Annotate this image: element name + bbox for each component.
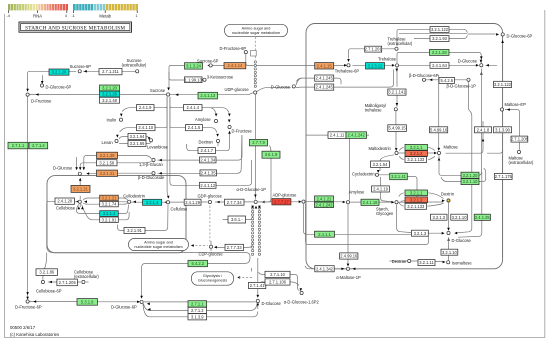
svg-text:D-Glucose: D-Glucose <box>458 58 478 63</box>
svg-text:2.4.1.12: 2.4.1.12 <box>200 183 216 188</box>
svg-text:Trehalose-6P: Trehalose-6P <box>335 68 360 73</box>
svg-text:3.2.1.21: 3.2.1.21 <box>100 171 116 176</box>
box 3.2.1.141 <box>388 89 406 95</box>
wire maltodextrin stack rows <box>399 147 435 159</box>
svg-text:3.2.1.4: 3.2.1.4 <box>146 200 159 205</box>
box 3.2.1.10 <box>451 214 468 220</box>
svg-text:3.2.1.26: 3.2.1.26 <box>102 92 118 97</box>
wire teal to glucose-6P <box>41 75 43 81</box>
box 3.2.1.58 <box>97 160 118 166</box>
compound Sucrose-6P(2) <box>209 64 212 67</box>
svg-text:2.7.1.175: 2.7.1.175 <box>495 174 513 179</box>
svg-text:2.7.1.1: 2.7.1.1 <box>191 301 204 306</box>
svg-text:5.4.99.16: 5.4.99.16 <box>430 127 448 132</box>
box 2.7.1.201 <box>365 46 382 52</box>
compound UDP-glucose <box>254 91 257 94</box>
box 2.4.1.4 <box>184 105 203 111</box>
compound Maltose-6'P <box>500 108 503 111</box>
box 3.2.1.86 <box>36 269 58 276</box>
svg-text:Maltose: Maltose <box>444 145 459 150</box>
svg-text:D-Glucose-6P: D-Glucose-6P <box>111 305 137 310</box>
svg-text:Maltose-6'P: Maltose-6'P <box>505 102 527 107</box>
box 2.4.1.19 <box>372 186 390 192</box>
box 3.2.1.26 <box>100 91 120 97</box>
wire trehalose row <box>248 64 393 66</box>
svg-text:3.2.1.64: 3.2.1.64 <box>130 134 146 139</box>
wire glucose-16P2 rows <box>259 272 300 291</box>
wire fructose-6P drop <box>243 54 249 66</box>
pathway box: amino sugar (bottom) <box>129 238 189 250</box>
box 5.3.1.9 <box>77 299 98 306</box>
svg-text:(extracellular): (extracellular) <box>509 160 534 165</box>
svg-text:3.1.3.9: 3.1.3.9 <box>191 314 204 319</box>
svg-text:3.2.1.41: 3.2.1.41 <box>391 174 407 179</box>
box 3.6.1.9 <box>262 151 280 158</box>
compound Maltodextrin <box>395 151 398 154</box>
svg-text:2.7.7.33: 2.7.7.33 <box>227 245 243 250</box>
svg-text:D-Glucose-6P: D-Glucose-6P <box>46 85 72 90</box>
compound Levanbiose <box>149 139 152 142</box>
svg-text:3.2.1.141: 3.2.1.141 <box>388 90 406 95</box>
svg-text:2.4.1.25: 2.4.1.25 <box>475 215 491 220</box>
box 2.4.1.9 <box>137 105 155 111</box>
box 3.2.1.26 <box>49 69 69 75</box>
svg-text:2.4.1.11: 2.4.1.11 <box>330 133 345 138</box>
wire cyclodextrin <box>379 155 417 202</box>
compound Cyclodextrin <box>375 173 378 176</box>
svg-text:2.4.1.245: 2.4.1.245 <box>316 76 334 81</box>
box 3.1.3.24 <box>185 63 203 69</box>
svg-text:β-D-Glucose-6P: β-D-Glucose-6P <box>409 73 439 78</box>
box 3.2.1.41 <box>390 173 408 180</box>
svg-text:Cellobiose: Cellobiose <box>56 206 76 211</box>
box 2.7.1.10 <box>265 271 290 277</box>
box 3.2.1.39 <box>97 152 118 158</box>
wire teal to D-fructose <box>28 71 49 96</box>
box 2.4.1.342 <box>315 266 334 272</box>
wire sucrose-6P row <box>69 70 136 72</box>
svg-text:3.6.1.9: 3.6.1.9 <box>265 152 278 157</box>
svg-text:2.4.1.13: 2.4.1.13 <box>200 93 216 98</box>
svg-text:Amino sugar and: Amino sugar and <box>144 240 173 244</box>
svg-text:5.4.2.2: 5.4.2.2 <box>192 261 205 266</box>
box 1.1.99.13 <box>185 77 203 83</box>
svg-text:Maltodextrin: Maltodextrin <box>369 146 392 151</box>
box 3.2.1.3 <box>431 214 448 220</box>
compound D-Glucose-6P <box>40 84 43 87</box>
svg-text:Amino sugar and: Amino sugar and <box>242 26 271 30</box>
compound CDP-glucose <box>209 245 212 248</box>
box 3.2.1.48 <box>100 97 120 103</box>
svg-text:3.2.1.39: 3.2.1.39 <box>100 153 116 158</box>
wire adp column <box>304 204 429 245</box>
svg-text:3.2.1.20: 3.2.1.20 <box>102 86 118 91</box>
compound 1,3-b-Glucan <box>152 158 155 161</box>
svg-text:2.4.1.10: 2.4.1.10 <box>138 125 154 130</box>
compound Isomaltose <box>447 261 450 264</box>
svg-text:Dextran: Dextran <box>199 139 214 144</box>
compound D-Glucose BR <box>447 231 450 234</box>
compound b-D-Glucose-6P <box>422 78 425 81</box>
svg-text:5.4.99.15: 5.4.99.15 <box>389 126 407 131</box>
box 3.2.1.74 <box>100 201 119 206</box>
box 2.4.1.5 <box>186 125 203 131</box>
svg-text:2.4.1.18: 2.4.1.18 <box>363 200 379 205</box>
box 2.7.1.208 <box>511 136 528 142</box>
wire 2.4.1.245 upper <box>297 78 303 81</box>
wire maltodextrin row <box>399 152 436 154</box>
svg-text:Glycolysis /: Glycolysis / <box>203 274 223 278</box>
wire sucrose main row <box>29 94 166 96</box>
svg-text:β-D-Glucoside: β-D-Glucoside <box>138 175 165 180</box>
wire gdp cdp column <box>210 241 212 251</box>
wire dextrin stack rows <box>399 193 444 206</box>
svg-text:3.2.1.10: 3.2.1.10 <box>463 179 479 184</box>
small connector box on dashed line <box>251 50 257 56</box>
box 2.7.1.41 <box>249 282 266 288</box>
box 3.2.1.93 <box>430 36 449 42</box>
wire trehalose up rows <box>397 29 496 63</box>
svg-text:2.4.1.34: 2.4.1.34 <box>200 158 216 163</box>
pathway box: amino sugar (top) <box>225 24 288 36</box>
box 2.4.1.1 <box>315 231 335 237</box>
svg-text:2.4.1.19: 2.4.1.19 <box>373 187 389 192</box>
compound GDP-glucose <box>208 200 211 203</box>
wire glucosidase rows to glucose <box>77 155 152 173</box>
wire cdp dashed join <box>209 205 211 207</box>
svg-text:D-Glucose: D-Glucose <box>53 166 73 171</box>
svg-text:D-Fructose-6P: D-Fructose-6P <box>220 46 247 51</box>
compound Dextrin <box>447 199 450 202</box>
box 2.7.1.175 <box>495 173 513 179</box>
wire maltose1p row <box>305 266 359 269</box>
svg-text:2.7.7.27: 2.7.7.27 <box>274 199 290 204</box>
compound Dextran left <box>216 139 219 142</box>
svg-text:3.2.1.91: 3.2.1.91 <box>127 228 143 233</box>
svg-text:3.2.1.10: 3.2.1.10 <box>442 250 458 255</box>
svg-text:2.7.1.1: 2.7.1.1 <box>12 143 25 148</box>
svg-text:2.7.1.106: 2.7.1.106 <box>269 280 287 285</box>
box 3.2.1.4 <box>143 199 162 205</box>
colorbar Metab <box>73 4 93 10</box>
svg-text:2.7.7.34: 2.7.7.34 <box>227 200 243 205</box>
wire chain bottom to 2.7.1.41 <box>257 258 259 309</box>
svg-text:nucleotide sugar metabolism: nucleotide sugar metabolism <box>232 31 280 35</box>
colorbar RNA <box>8 4 68 10</box>
svg-text:2.4.1.245: 2.4.1.245 <box>316 85 334 90</box>
svg-text:Cellulose: Cellulose <box>171 206 189 211</box>
svg-text:3.2.1.21: 3.2.1.21 <box>73 187 89 192</box>
wire inulin rows <box>120 97 168 132</box>
wire 361 row <box>223 212 253 220</box>
svg-text:(extracellular): (extracellular) <box>122 63 147 68</box>
box 2.7.7.33 <box>225 244 244 250</box>
box 2.4.1.21 <box>315 196 334 202</box>
svg-text:nucleotide sugar metabolism: nucleotide sugar metabolism <box>134 245 182 249</box>
svg-text:trehalose: trehalose <box>365 108 383 113</box>
box 3.2.1.3 <box>412 230 429 236</box>
wire maltose down BJ <box>439 69 486 238</box>
box 2.7.7.9 <box>250 139 268 146</box>
pathway box: glycolysis <box>192 272 234 285</box>
wire trehalose extracell <box>349 49 395 59</box>
svg-text:α-D-Glucose-1P: α-D-Glucose-1P <box>237 187 267 192</box>
box 3.2.1.133 <box>405 157 427 163</box>
wire cellobiose column <box>77 180 95 220</box>
wire maltoligosyl down <box>395 112 397 150</box>
compound Sucrose (extracellular) <box>136 70 139 73</box>
svg-text:2.7.7.9: 2.7.7.9 <box>252 140 265 145</box>
box 2.4.1.15 <box>315 63 334 69</box>
svg-text:3.2.1.20: 3.2.1.20 <box>463 173 479 178</box>
wire amylose rows right <box>170 97 229 133</box>
dashed wire: glycolysis arrow <box>239 276 252 278</box>
compound D-Fructose-6P btm <box>26 300 29 303</box>
svg-text:2.4.1.15: 2.4.1.15 <box>317 63 333 68</box>
svg-text:Sucrose: Sucrose <box>150 88 166 93</box>
svg-text:2.7.1.208: 2.7.1.208 <box>511 137 529 142</box>
box 3.1.3.9 <box>188 314 207 320</box>
compound Cellobiose-6P <box>41 280 44 283</box>
svg-text:2.4.1.7: 2.4.1.7 <box>201 148 214 153</box>
wire g6p row 5422 <box>142 258 250 297</box>
compound Maltose <box>437 151 440 154</box>
svg-text:3.2.1.4: 3.2.1.4 <box>103 211 116 216</box>
compound ADP-glucose <box>302 200 305 203</box>
title box <box>19 22 132 32</box>
svg-text:3.2.1.21: 3.2.1.21 <box>102 196 118 201</box>
svg-text:Trehalose: Trehalose <box>378 56 397 61</box>
svg-text:Sucrose-6P: Sucrose-6P <box>197 58 219 63</box>
svg-text:D-Glucose: D-Glucose <box>452 238 472 243</box>
svg-text:3.2.1.65: 3.2.1.65 <box>130 141 146 146</box>
box 3.1.3.12 <box>366 63 385 69</box>
wire 2464 row <box>399 64 497 66</box>
compound Amylose <box>346 201 349 204</box>
box 3.2.1.122 <box>430 27 449 33</box>
svg-text:Levanbiose: Levanbiose <box>147 144 169 149</box>
svg-text:3.2.1.28: 3.2.1.28 <box>432 50 448 55</box>
svg-text:2.4.1.342: 2.4.1.342 <box>316 266 334 271</box>
svg-text:2.4.1.5: 2.4.1.5 <box>188 125 201 130</box>
svg-text:3.2.1.86: 3.2.1.86 <box>39 270 55 275</box>
wire maltose extracell <box>505 110 519 150</box>
svg-text:Dextran: Dextran <box>392 259 407 264</box>
compound a-Maltose-1P <box>346 267 349 270</box>
wire cellodextrin loops <box>84 205 168 231</box>
wire trehalose down <box>396 67 398 106</box>
box 2.4.99.16 <box>340 253 358 259</box>
box 2.4.1.18 <box>361 199 379 205</box>
svg-text:3.6.1.-: 3.6.1.- <box>231 217 243 222</box>
wire ketosucrose row <box>169 72 202 80</box>
box 2.4.1.13 <box>198 92 218 99</box>
wire maltose6p vert <box>487 37 503 259</box>
svg-text:2.4.1.242: 2.4.1.242 <box>315 202 333 207</box>
svg-text:3.1.3.24: 3.1.3.24 <box>186 64 202 69</box>
svg-text:3.2.1.3: 3.2.1.3 <box>414 231 427 236</box>
box 2.4.1.20 <box>55 198 75 204</box>
box 2.7.7.27 <box>272 199 291 205</box>
compound a-D-Glucose-1,6P2 <box>300 291 303 294</box>
wire UDP to D-glucose <box>257 87 291 91</box>
dashed wire: amino sugar to UDP-glucose <box>254 37 256 60</box>
compound D-Glucose-6P TR <box>501 33 504 36</box>
svg-text:Glycogen: Glycogen <box>376 211 394 216</box>
box 3.2.1.21 <box>97 170 118 176</box>
svg-text:2.7.1.2: 2.7.1.2 <box>191 308 204 313</box>
box 2.4.1.12 <box>200 182 217 188</box>
svg-text:3-Ketosucrose: 3-Ketosucrose <box>207 75 234 80</box>
wire udp column <box>252 95 272 202</box>
svg-text:Metab: Metab <box>99 13 111 18</box>
box 3.2.1.28 <box>430 49 450 55</box>
svg-text:2.7.1.211: 2.7.1.211 <box>102 69 119 74</box>
wire levanbiose rows <box>119 137 151 144</box>
compound Cellulose <box>166 201 169 204</box>
polymer bead chain (UDP-glucose) <box>254 61 256 63</box>
wire treS vertical <box>438 75 440 150</box>
svg-text:(extracellular): (extracellular) <box>74 274 99 279</box>
compound Inulin <box>119 118 122 121</box>
svg-text:3.1.3.12: 3.1.3.12 <box>368 63 384 68</box>
wire 24112 row <box>167 97 251 196</box>
svg-text:3.2.1.122: 3.2.1.122 <box>494 82 512 87</box>
box 2.4.1.245 <box>315 84 334 90</box>
compound Cellobiose (extracellular) <box>82 280 85 283</box>
box 3.2.1.1 <box>405 190 428 196</box>
box 3.1.3.90 <box>494 127 512 133</box>
svg-text:STARCH AND SUCROSE METABOLISM: STARCH AND SUCROSE METABOLISM <box>25 26 125 32</box>
box 2.4.1.7 <box>198 148 216 154</box>
svg-text:GDP-glucose: GDP-glucose <box>198 193 223 198</box>
svg-text:2.4.1.14: 2.4.1.14 <box>228 63 244 68</box>
svg-text:Cellobiose-6P: Cellobiose-6P <box>36 288 62 293</box>
svg-text:1: 1 <box>136 14 138 18</box>
svg-text:Dextrin: Dextrin <box>441 191 455 196</box>
box 3.2.1.64 <box>128 133 146 139</box>
box 3.2.1.65 <box>128 140 146 146</box>
box 3.6.1.- <box>228 216 246 223</box>
box 2.4.1.245 <box>315 75 334 81</box>
box 3.2.1.2 <box>405 197 428 203</box>
svg-text:4: 4 <box>65 14 67 18</box>
box 2.7.1.106 <box>265 279 290 285</box>
svg-text:-4: -4 <box>7 14 10 18</box>
compound Cellobiose <box>78 200 81 203</box>
box 2.4.1.8 <box>475 127 492 133</box>
wire sucrose to UDP row <box>170 93 253 95</box>
svg-text:3.2.1.133: 3.2.1.133 <box>407 157 425 162</box>
box 3.2.1.91 <box>124 228 145 234</box>
svg-text:3.2.1.133: 3.2.1.133 <box>407 204 425 209</box>
wire g1p row <box>258 201 443 204</box>
svg-text:2.7.1.10: 2.7.1.10 <box>270 272 286 277</box>
compound D-Glucose right <box>480 64 483 67</box>
wire 27733 row <box>215 240 253 247</box>
compound Maltoligosyltrehalose <box>394 108 397 111</box>
svg-text:3.2.1.10: 3.2.1.10 <box>452 215 468 220</box>
svg-text:2.4.1.64: 2.4.1.64 <box>432 63 448 68</box>
compound D-Fructose <box>26 93 29 96</box>
compound Trehalose (extracellular) <box>395 47 398 50</box>
box 3.2.1.21 <box>100 195 119 201</box>
container: cellulose section <box>47 176 186 253</box>
wire cellobiose extracell stub <box>86 281 89 283</box>
compound Starch <box>395 201 398 204</box>
box 3.2.1.4 <box>100 211 119 217</box>
svg-text:2.7.1.201: 2.7.1.201 <box>365 47 383 52</box>
svg-text:RNA: RNA <box>33 13 42 18</box>
compound D-Glucose btm <box>256 299 259 302</box>
box 5.4.2.2 <box>188 260 208 266</box>
compound D-Glucose-6P btm <box>140 300 143 303</box>
box 2.4.1.29 <box>184 199 201 205</box>
svg-text:ADP-glucose: ADP-glucose <box>273 192 298 197</box>
svg-text:D-Glucose-6P: D-Glucose-6P <box>507 33 533 38</box>
wire cellobiose-6P row <box>43 253 81 282</box>
svg-text:2.4.1.29: 2.4.1.29 <box>185 200 201 205</box>
compound b-D-Glucoside <box>152 172 155 175</box>
svg-text:3.2.1.91: 3.2.1.91 <box>102 217 118 222</box>
svg-text:3.1.3.90: 3.1.3.90 <box>495 127 511 132</box>
compound Amylose left <box>214 119 217 122</box>
wire amylosucrase column <box>306 135 369 200</box>
polymer bead chains (starch) <box>251 207 253 209</box>
wire isomaltose row <box>390 237 449 261</box>
svg-text:D-Glucose: D-Glucose <box>262 301 282 306</box>
svg-text:3.2.1.1: 3.2.1.1 <box>410 190 423 195</box>
wire beta rows <box>426 79 466 81</box>
box 3.2.1.91 <box>100 217 119 223</box>
svg-text:2.4.1.35: 2.4.1.35 <box>201 171 217 176</box>
wire dextrin down <box>449 82 472 233</box>
box 2.4.1.10 <box>137 125 156 131</box>
dashed wire: GDP-glucose down to CDP-glucose <box>209 206 211 242</box>
svg-text:3.2.1.11: 3.2.1.11 <box>419 260 434 265</box>
svg-text:3.2.1.3: 3.2.1.3 <box>433 215 446 220</box>
box 2.7.7.34 <box>225 199 245 205</box>
container: starch/trehalose section <box>306 24 503 269</box>
compound D-Fructose(2) <box>228 125 231 128</box>
compound Trehalose <box>395 64 398 67</box>
svg-text:2.7.1.4: 2.7.1.4 <box>32 143 45 148</box>
svg-text:(c) Kanehisa Laboratories: (c) Kanehisa Laboratories <box>10 332 59 337</box>
wire starch down <box>397 204 444 233</box>
box 3.2.1.21 <box>71 185 90 192</box>
box 3.2.1.20 <box>100 85 120 91</box>
svg-text:(extracellular): (extracellular) <box>388 41 413 46</box>
svg-text:2.7.1.205: 2.7.1.205 <box>59 280 77 285</box>
box 2.4.1.242 <box>346 132 367 139</box>
compound 3-Ketosucrose <box>203 78 206 81</box>
svg-text:D-Fructose-6P: D-Fructose-6P <box>15 305 42 310</box>
svg-text:3.2.1.48: 3.2.1.48 <box>102 98 118 103</box>
box 3.2.1.20 <box>461 172 479 178</box>
svg-text:1.1.99.13: 1.1.99.13 <box>185 77 203 82</box>
svg-text:D-Fructose: D-Fructose <box>31 99 52 104</box>
svg-text:5.3.1.9: 5.3.1.9 <box>81 300 94 305</box>
box 3.2.1.2 <box>405 151 428 157</box>
svg-text:2.4.99.16: 2.4.99.16 <box>340 254 358 259</box>
box 2.4.1.242 <box>315 202 334 208</box>
box 2.4.1.11 <box>328 132 346 139</box>
box 3.2.1.133 <box>405 203 427 209</box>
svg-text:UDP-glucose: UDP-glucose <box>225 87 250 92</box>
svg-text:3.2.1.74: 3.2.1.74 <box>102 202 118 207</box>
box 2.7.1.205 <box>57 279 78 286</box>
box 2.4.1.35 <box>200 170 217 176</box>
